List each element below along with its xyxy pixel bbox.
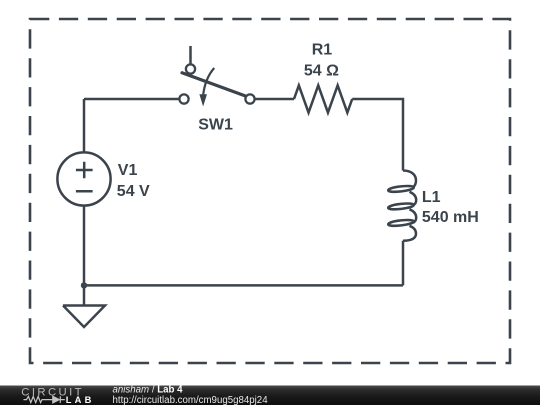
ground symbol	[63, 285, 105, 327]
SW1 left terminal circle	[179, 94, 188, 103]
voltage source V1 circle	[57, 152, 110, 205]
svg-text:http://circuitlab.com/cm9ug5g8: http://circuitlab.com/cm9ug5g84pj24	[113, 395, 269, 405]
svg-text:54 V: 54 V	[117, 183, 150, 200]
schematic dashed border frame	[30, 19, 510, 363]
svg-text:SW1: SW1	[198, 117, 233, 134]
svg-text:R1: R1	[312, 42, 333, 59]
CircuitLab logo resistor-diode squiggle	[24, 396, 65, 402]
wire: R1 to top-right corner and down to L1	[352, 99, 403, 171]
svg-text:LAB: LAB	[66, 395, 95, 405]
SW1 actuation arc arrow	[203, 68, 214, 96]
SW1 blade	[182, 73, 246, 96]
svg-text:54 Ω: 54 Ω	[304, 63, 339, 80]
SW1 top terminal circle	[186, 64, 195, 73]
inductor L1 coil	[388, 171, 416, 241]
V1 plus sign	[76, 162, 93, 179]
wire: V1 to bottom junction	[83, 206, 86, 286]
V1 minus sign	[76, 190, 93, 193]
CircuitLab logo diode	[53, 396, 61, 403]
switch SW1	[179, 46, 254, 107]
footer black bar	[0, 386, 540, 405]
svg-text:V1: V1	[118, 162, 138, 179]
SW1 right terminal circle	[245, 94, 254, 103]
wire: left vertical top (top wire to V1)	[83, 99, 86, 153]
SW1 top throw stub wire	[189, 46, 192, 65]
wire: SW1 right terminal to resistor R1	[255, 98, 294, 101]
wire: L1 to bottom-right corner	[402, 241, 405, 286]
svg-text:540 mH: 540 mH	[422, 209, 479, 226]
svg-text:L1: L1	[422, 189, 441, 206]
wire: bottom horizontal	[84, 284, 403, 287]
wire: top left horizontal from V1 to SW1 left terminal	[84, 98, 179, 101]
node junction dot	[81, 282, 87, 288]
resistor R1 zigzag	[294, 85, 352, 112]
